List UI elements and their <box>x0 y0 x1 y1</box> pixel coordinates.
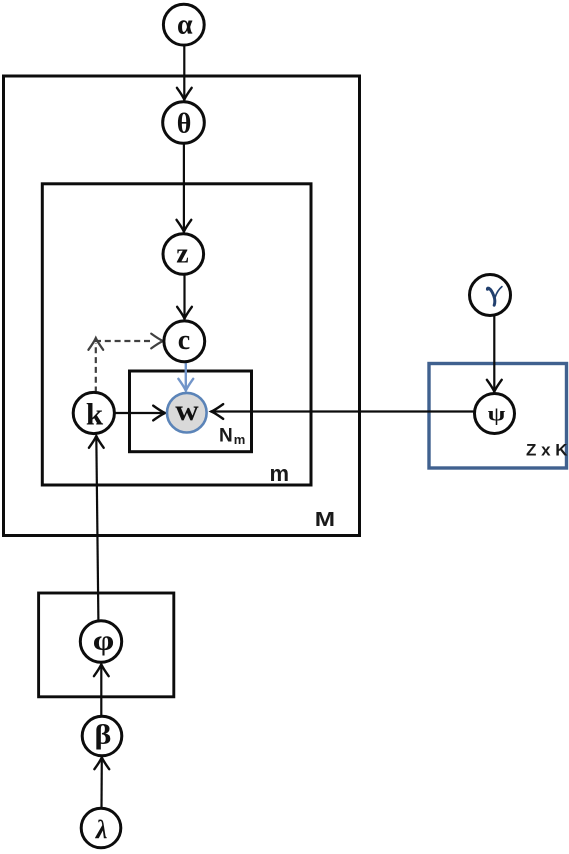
svg-text:c: c <box>178 325 190 356</box>
svg-text:θ: θ <box>177 109 192 140</box>
svg-text:M: M <box>315 508 335 530</box>
svg-text:Z x K: Z x K <box>526 441 568 460</box>
svg-text:m: m <box>270 461 290 486</box>
svg-text:ψ: ψ <box>488 405 506 426</box>
svg-text:z: z <box>176 239 188 270</box>
svg-text:N: N <box>219 425 233 446</box>
svg-text:k: k <box>86 397 104 432</box>
svg-text:m: m <box>234 432 246 447</box>
svg-text:α: α <box>177 10 193 41</box>
svg-text:λ: λ <box>95 815 108 844</box>
svg-text:φ: φ <box>93 624 115 656</box>
svg-text:w: w <box>175 394 199 427</box>
svg-text:β: β <box>95 721 112 750</box>
